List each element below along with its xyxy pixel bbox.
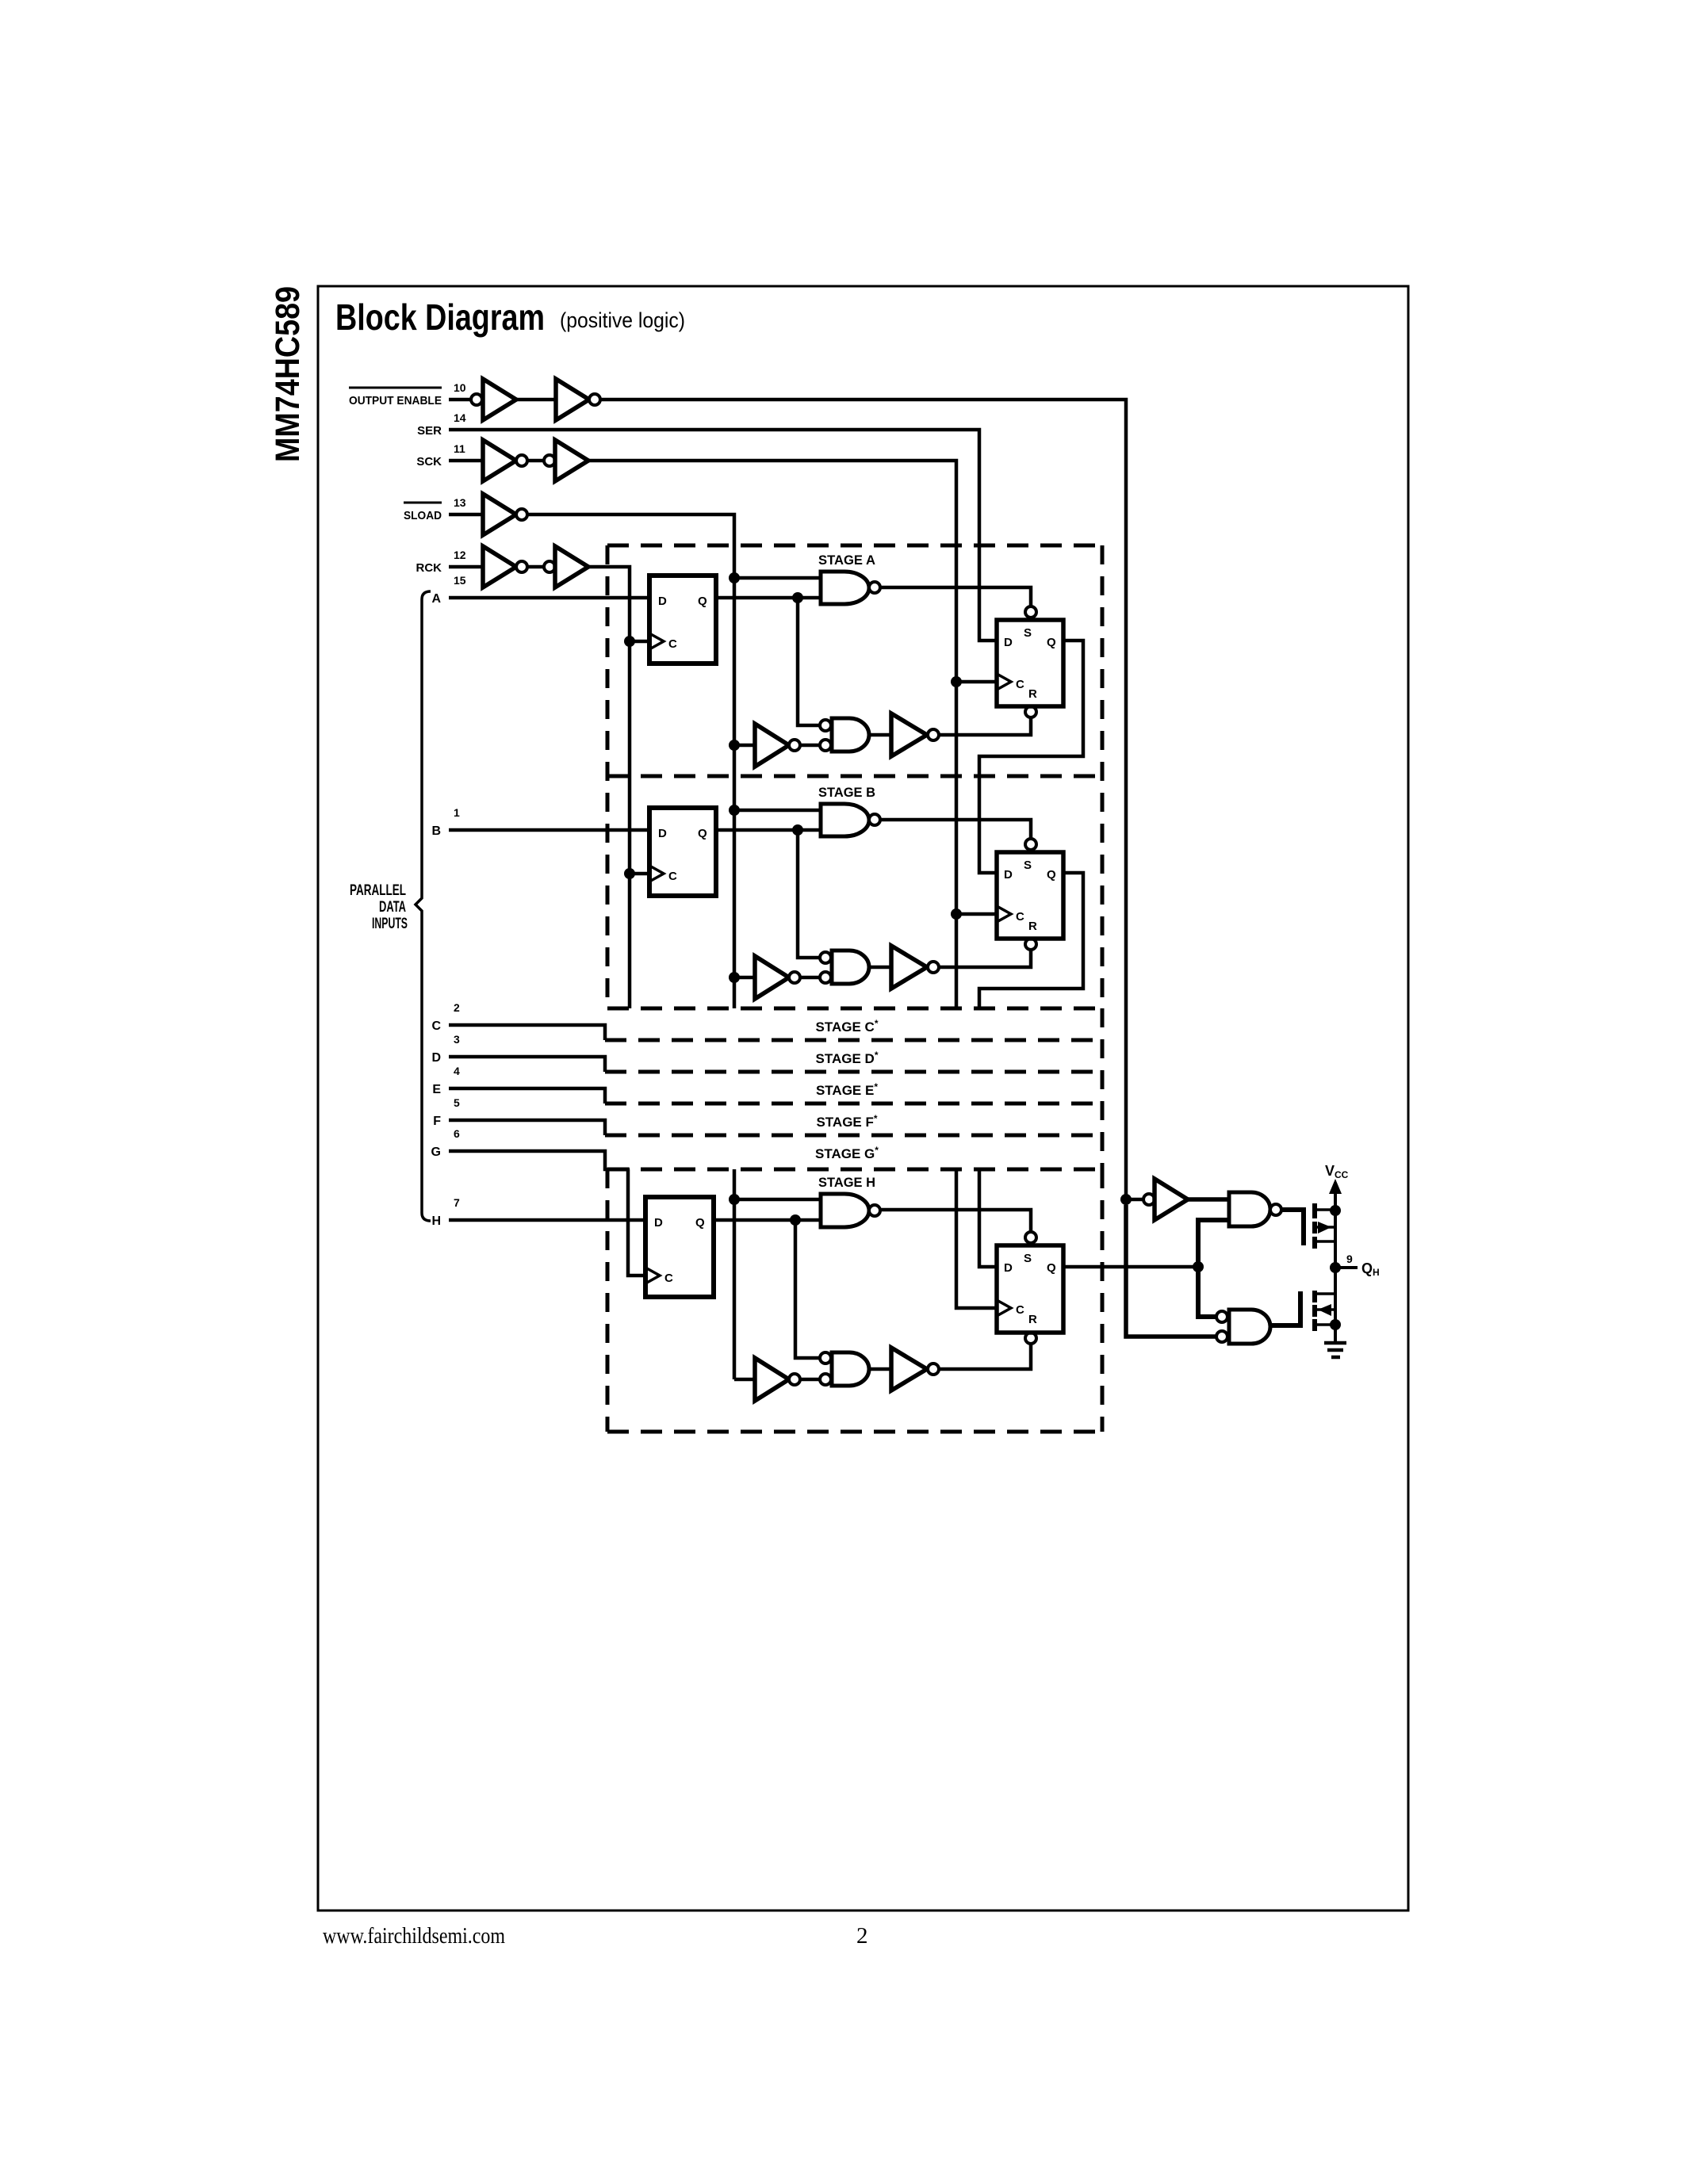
transistor Q2 stubs: [1315, 1292, 1335, 1295]
svg-text:QH: QH: [1361, 1260, 1380, 1278]
inverter U2a output bubble: [516, 455, 527, 466]
svg-text:S: S: [1024, 1252, 1032, 1265]
wire QH to lower NAND: [795, 1220, 820, 1358]
stage C dashed band: [605, 1038, 1102, 1042]
wire SLOAD input: [449, 513, 483, 517]
inverter2 H output bubble: [928, 1364, 939, 1375]
svg-text:1: 1: [454, 806, 460, 819]
svg-text:3: 3: [454, 1033, 460, 1046]
NAND N input bubbles: [1216, 1311, 1227, 1322]
transistor Q2 arrow: [1318, 1304, 1331, 1316]
svg-text:E: E: [432, 1083, 441, 1096]
svg-text:D: D: [654, 1216, 663, 1230]
SR latch stage A: [997, 620, 1063, 706]
wire FFH Q to NAND: [714, 1218, 821, 1222]
svg-text:STAGE A: STAGE A: [818, 553, 875, 568]
wire NAND2 to inverter2 A: [869, 733, 891, 737]
svg-text:SLOAD: SLOAD: [404, 509, 442, 522]
junction NMOS source: [1330, 1319, 1341, 1330]
transistor Q2 NMOS channel: [1312, 1291, 1317, 1302]
inverter U4b input bubble: [544, 561, 555, 572]
wire OUTPUT ENABLE lower segment: [1126, 1205, 1216, 1337]
latch H R input bubble: [1025, 1333, 1036, 1344]
wire QA to lower NAND: [798, 598, 820, 725]
NAND gate stage A: [821, 572, 869, 604]
wire latch A clock: [956, 680, 997, 684]
buffer U4b: [555, 546, 588, 587]
svg-text:RCK: RCK: [416, 561, 442, 575]
transistor Q1 stubs: [1315, 1208, 1335, 1211]
wire NAND A to latch S: [880, 587, 1031, 606]
svg-text:R: R: [1028, 687, 1037, 701]
wire NAND B to latch S: [880, 820, 1031, 839]
latch A R input bubble: [1025, 706, 1036, 717]
wire QH output: [1335, 1266, 1358, 1269]
svg-text:5: 5: [454, 1096, 460, 1109]
NAND P output bubble: [1270, 1204, 1281, 1215]
wire SLOAD to NAND A: [734, 576, 821, 580]
transistor Q1 PMOS channel: [1312, 1203, 1317, 1218]
svg-text:Q: Q: [698, 595, 707, 608]
junction SLOAD / stage A inverter: [729, 740, 740, 751]
svg-text:10: 10: [454, 381, 466, 394]
wire NAND P to PMOS gate: [1281, 1210, 1304, 1245]
wire input F: [449, 1120, 605, 1135]
svg-text:9: 9: [1346, 1253, 1353, 1265]
svg-text:Block Diagram: Block Diagram: [335, 296, 545, 338]
wire RCK to FF A clock: [630, 640, 649, 644]
svg-text:2: 2: [856, 1923, 868, 1949]
svg-text:12: 12: [454, 549, 466, 561]
inverter U1b output bubble: [589, 394, 600, 405]
svg-text:STAGE C*: STAGE C*: [816, 1018, 879, 1035]
NAND gate N driver: [1229, 1310, 1270, 1344]
wire NAND H to latch S: [880, 1210, 1031, 1232]
wire input H: [449, 1218, 645, 1222]
svg-text:13: 13: [454, 496, 466, 509]
wire input A: [449, 596, 649, 600]
wire OUTPUT ENABLE to output driver: [600, 400, 1126, 1194]
svg-text:R: R: [1028, 1313, 1037, 1326]
NAND stage A output bubble: [869, 582, 880, 593]
NAND2 gate stage A: [832, 718, 869, 752]
inverter U4a output bubble: [516, 561, 527, 572]
driver buffer input bubble: [1143, 1194, 1155, 1205]
wire latch A Q to latch B D: [979, 641, 1083, 873]
svg-text:D: D: [1004, 636, 1013, 649]
svg-text:4: 4: [454, 1065, 460, 1077]
wire OUTPUT ENABLE input: [449, 398, 471, 402]
svg-text:C: C: [431, 1019, 441, 1033]
svg-text:Q: Q: [698, 827, 707, 840]
junction SLOAD / NAND H: [729, 1194, 740, 1205]
svg-text:Q: Q: [695, 1216, 705, 1230]
inverter2 stage H: [891, 1348, 927, 1390]
svg-text:C: C: [664, 1272, 673, 1285]
wire SCK vertical to latch clocks: [588, 461, 956, 1008]
NAND stage B output bubble: [869, 814, 880, 825]
latch A S input bubble: [1025, 606, 1036, 618]
svg-text:DATA: DATA: [379, 899, 406, 916]
NAND2 A input bubbles: [820, 720, 831, 731]
svg-text:S: S: [1024, 859, 1032, 872]
wire inverter2 B to latch R: [939, 950, 1031, 967]
buffer U4a: [483, 546, 516, 587]
junction SLOAD / stage A NAND: [729, 572, 740, 583]
junction RCK / FF A clock: [624, 636, 635, 647]
buffer U3: [483, 494, 516, 535]
inverter B output bubble: [789, 972, 800, 983]
wire input E: [449, 1088, 605, 1103]
wire NAND2 to inverter2 B: [869, 966, 891, 970]
wire latch B clock: [956, 912, 997, 916]
wire SLOAD vertical chain: [527, 514, 734, 1008]
NAND H output bubble: [869, 1205, 880, 1216]
svg-text:6: 6: [454, 1127, 460, 1140]
latch B S input bubble: [1025, 839, 1036, 850]
wire input D: [449, 1057, 605, 1072]
wire SLOAD chain stage H: [733, 1169, 737, 1379]
svg-text:STAGE E*: STAGE E*: [816, 1081, 878, 1098]
wire inverter2 H to latch R: [939, 1344, 1031, 1369]
junction QH output node: [1193, 1261, 1204, 1272]
svg-text:OUTPUT ENABLE: OUTPUT ENABLE: [349, 394, 442, 407]
wire QB to lower NAND: [798, 830, 820, 958]
svg-text:(positive logic): (positive logic): [560, 308, 685, 332]
wire inverter2 A to latch R: [939, 718, 1031, 735]
svg-text:www.fairchildsemi.com: www.fairchildsemi.com: [323, 1923, 505, 1949]
svg-text:14: 14: [454, 411, 466, 424]
junction QA branch: [792, 592, 803, 603]
inverter2 B output bubble: [928, 962, 939, 973]
svg-text:VCC: VCC: [1325, 1163, 1349, 1180]
svg-text:C: C: [668, 637, 677, 651]
wire buffer to NAND P: [1188, 1197, 1229, 1202]
svg-text:D: D: [658, 595, 667, 608]
wire to driver buffer: [1126, 1198, 1143, 1202]
svg-text:7: 7: [454, 1196, 460, 1209]
junction SLOAD / stage B inverter: [729, 972, 740, 983]
D flip-flop FFH: [645, 1197, 714, 1297]
wire input G: [449, 1151, 630, 1169]
buffer U2b: [555, 440, 588, 481]
svg-text:PARALLEL: PARALLEL: [350, 882, 406, 899]
NAND gate stage H: [821, 1194, 869, 1227]
svg-text:C: C: [668, 870, 677, 883]
svg-text:Q: Q: [1047, 636, 1056, 649]
wire RCK vertical to FF clocks: [588, 567, 630, 1008]
svg-text:C: C: [1016, 678, 1024, 691]
bracket parallel data inputs: [416, 591, 431, 1221]
SR latch stage H: [997, 1245, 1063, 1333]
wire inverter to NAND2 B: [800, 976, 820, 980]
svg-text:D: D: [658, 827, 667, 840]
D flip-flop FFA: [649, 576, 716, 664]
svg-text:S: S: [1024, 626, 1032, 640]
svg-text:B: B: [431, 824, 441, 838]
stage E dashed band: [605, 1102, 1102, 1106]
wire RCK input: [449, 565, 483, 569]
buffer U2a: [483, 440, 516, 481]
svg-text:F: F: [433, 1115, 441, 1128]
svg-text:INPUTS: INPUTS: [372, 916, 408, 932]
NAND2 H input bubbles: [820, 1352, 831, 1364]
inverter U1a input bubble: [471, 394, 482, 405]
wire SCK input: [449, 459, 483, 463]
inverter U3 output bubble: [516, 509, 527, 520]
svg-text:STAGE B: STAGE B: [818, 785, 875, 800]
svg-text:H: H: [431, 1214, 441, 1228]
svg-text:STAGE F*: STAGE F*: [816, 1113, 877, 1130]
junction VCC / PMOS source: [1330, 1205, 1341, 1216]
inverter stage B lower: [734, 976, 755, 980]
ground symbol: [1324, 1341, 1346, 1345]
inverter2 stage B: [891, 946, 927, 989]
transistor Q1 arrow: [1318, 1222, 1331, 1234]
wire NAND N to NMOS gate: [1270, 1291, 1300, 1325]
svg-text:D: D: [431, 1051, 441, 1065]
wire U4a to U4b: [527, 565, 544, 569]
wire output rail: [1334, 1189, 1337, 1341]
wire input C: [449, 1025, 605, 1040]
svg-text:G: G: [431, 1146, 441, 1159]
D flip-flop FFB: [649, 808, 716, 896]
wire U1a to U1b: [516, 398, 556, 402]
wire QH to NAND P input: [1198, 1220, 1229, 1267]
junction OUTPUT ENABLE / driver buffer: [1120, 1194, 1132, 1205]
junction QH branch: [790, 1214, 801, 1226]
latch H S input bubble: [1025, 1232, 1036, 1243]
svg-text:15: 15: [454, 574, 466, 587]
wire FFB Q to NAND: [716, 828, 821, 832]
svg-text:STAGE D*: STAGE D*: [816, 1050, 879, 1066]
svg-text:C: C: [1016, 910, 1024, 924]
inverter stage A lower: [734, 744, 755, 748]
junction QB branch: [792, 824, 803, 836]
wire latch H Q output: [1063, 1265, 1198, 1269]
stage A/B dashed box: [607, 544, 1102, 548]
svg-text:11: 11: [454, 442, 465, 455]
stage F dashed band: [605, 1134, 1102, 1138]
svg-text:C: C: [1016, 1303, 1024, 1317]
NAND2 gate stage H: [832, 1352, 869, 1386]
inverter U2b input bubble: [544, 455, 555, 466]
stage H dashed box: [607, 1168, 1102, 1172]
wire to NAND H top input: [734, 1198, 821, 1202]
wire SCK chain to latch H clock: [956, 1169, 997, 1308]
inverter2 stage A: [891, 713, 927, 756]
SR latch stage B: [997, 852, 1063, 939]
svg-text:STAGE H: STAGE H: [818, 1175, 875, 1190]
junction output node: [1330, 1262, 1341, 1273]
wire NAND2 to inverter2 H: [869, 1367, 891, 1371]
wire RCK chain to FF H clock: [628, 1169, 645, 1276]
wire SER to stage A latch D: [449, 430, 997, 641]
buffer U1b: [556, 379, 589, 420]
latch B R input bubble: [1025, 939, 1036, 950]
wire U2a to U2b: [527, 459, 544, 463]
NAND gate P driver: [1229, 1192, 1270, 1226]
svg-text:STAGE G*: STAGE G*: [815, 1145, 879, 1161]
wire inverter to NAND2 A: [800, 744, 820, 748]
svg-text:D: D: [1004, 868, 1013, 882]
wire inverter to NAND2 H: [800, 1378, 820, 1382]
wire SLOAD to NAND B: [734, 809, 821, 813]
inverter2 A output bubble: [928, 729, 939, 740]
svg-text:MM74HC589: MM74HC589: [269, 286, 307, 462]
NAND gate stage B: [821, 804, 869, 836]
svg-text:2: 2: [454, 1001, 460, 1014]
junction SLOAD / stage B NAND: [729, 805, 740, 816]
svg-text:Q: Q: [1047, 868, 1056, 882]
wire input B: [449, 828, 649, 832]
NAND2 gate stage B: [832, 950, 869, 984]
svg-text:Q: Q: [1047, 1261, 1056, 1275]
svg-text:SER: SER: [417, 424, 442, 438]
buffer U1a: [483, 379, 516, 420]
inverter H output bubble: [789, 1374, 800, 1385]
power VCC arrow: [1334, 1189, 1337, 1211]
stage D dashed band: [605, 1070, 1102, 1074]
junction RCK / FF B clock: [624, 868, 635, 879]
inverter stage H lower: [734, 1378, 755, 1382]
wire latch B Q loop: [979, 873, 1083, 1008]
wire QH to NAND N input: [1198, 1267, 1216, 1317]
wire FFA Q to NAND: [716, 596, 821, 600]
svg-text:A: A: [431, 592, 441, 606]
svg-text:SCK: SCK: [416, 455, 442, 469]
svg-text:D: D: [1004, 1261, 1013, 1275]
wire RCK to FF B clock: [630, 872, 649, 876]
junction SCK / latch B clock: [951, 908, 962, 920]
inverter A output bubble: [789, 740, 800, 751]
junction SCK / latch A clock: [951, 676, 962, 687]
stage C-G dashed right edge: [1101, 1008, 1105, 1169]
driver buffer U5: [1155, 1179, 1188, 1220]
svg-text:R: R: [1028, 920, 1037, 933]
wire SER chain to latch H D: [979, 1169, 997, 1267]
NAND2 B input bubbles: [820, 952, 831, 963]
